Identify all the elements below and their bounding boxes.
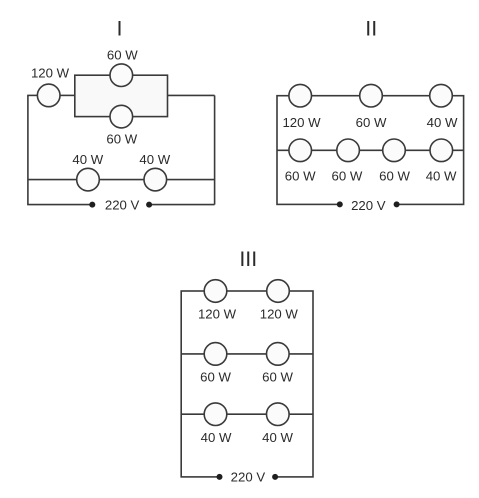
svg-text:40 W: 40 W bbox=[72, 152, 103, 167]
circuit II: second row wire bbox=[277, 149, 464, 151]
mask for 220V text gap circuit III bottom bbox=[220, 475, 276, 478]
circuit III: third row wire bbox=[181, 413, 313, 415]
terminal dot right circuit II bbox=[394, 201, 400, 207]
circuit II: outer rectangle bbox=[277, 96, 464, 205]
circuit I: middle branch wire (40W lamps) bbox=[28, 179, 215, 181]
lamp 40W circuit III left bbox=[204, 403, 227, 426]
lamp 120W circuit III left bbox=[204, 280, 227, 303]
svg-text:60 W: 60 W bbox=[379, 168, 410, 183]
circuit I: left vertical wire bbox=[27, 95, 29, 204]
lamp 40W circuit II row1 bbox=[430, 84, 453, 107]
svg-text:220 V: 220 V bbox=[231, 469, 266, 484]
mask for 220V text gap circuit II bottom bbox=[340, 203, 397, 206]
circuit I: bottom wire right segment bbox=[149, 204, 215, 206]
lamp 60W circuit II row2 c bbox=[383, 139, 406, 162]
lamp 60W circuit II row2 a bbox=[289, 139, 312, 162]
svg-text:60 W: 60 W bbox=[107, 48, 138, 63]
svg-text:120 W: 120 W bbox=[260, 306, 299, 321]
lamp 40W right circuit I bbox=[144, 168, 167, 191]
svg-text:220 V: 220 V bbox=[105, 198, 140, 213]
lamp 120W circuit II row1 bbox=[289, 84, 312, 107]
lamp 60W circuit III left bbox=[204, 343, 227, 366]
lamp 40W circuit II row2 bbox=[430, 139, 453, 162]
lamp 120W circuit I bbox=[37, 84, 60, 107]
svg-text:III: III bbox=[239, 247, 257, 271]
svg-text:120 W: 120 W bbox=[198, 306, 237, 321]
circuit III: second row wire bbox=[181, 353, 313, 355]
svg-text:II: II bbox=[365, 17, 377, 41]
parallel box of two 60W lamps bbox=[75, 75, 168, 116]
circuit I: bottom wire left segment bbox=[27, 204, 92, 206]
circuit I: right vertical wire bbox=[214, 95, 216, 204]
circuit III: outer rectangle bbox=[181, 291, 313, 477]
svg-text:60 W: 60 W bbox=[356, 115, 387, 130]
svg-text:120 W: 120 W bbox=[282, 115, 321, 130]
svg-text:40 W: 40 W bbox=[427, 115, 458, 130]
svg-text:60 W: 60 W bbox=[285, 168, 316, 183]
svg-text:I: I bbox=[117, 17, 123, 41]
lamp 60W circuit II row2 b bbox=[337, 139, 360, 162]
svg-text:60 W: 60 W bbox=[262, 370, 293, 385]
wire: lamp 120W to parallel box bbox=[60, 94, 75, 96]
svg-text:40 W: 40 W bbox=[262, 430, 293, 445]
terminal dot left circuit I bbox=[89, 202, 95, 208]
terminal dot left circuit II bbox=[337, 201, 343, 207]
lamp 60W top circuit I bbox=[110, 64, 133, 87]
svg-text:60 W: 60 W bbox=[106, 131, 137, 146]
svg-text:40 W: 40 W bbox=[139, 152, 170, 167]
svg-text:120 W: 120 W bbox=[31, 66, 70, 81]
svg-text:40 W: 40 W bbox=[426, 168, 457, 183]
svg-text:40 W: 40 W bbox=[201, 430, 232, 445]
svg-text:220 V: 220 V bbox=[351, 198, 386, 213]
lamp 60W circuit III right bbox=[267, 343, 290, 366]
lamp 120W circuit III right bbox=[267, 280, 290, 303]
lamp 60W circuit II row1 bbox=[360, 84, 383, 107]
terminal dot left circuit III bbox=[217, 474, 223, 480]
terminal dot right circuit III bbox=[272, 474, 278, 480]
wire: parallel box to right vertical bbox=[168, 94, 215, 96]
svg-text:60 W: 60 W bbox=[332, 168, 363, 183]
svg-text:60 W: 60 W bbox=[200, 370, 231, 385]
lamp 40W left circuit I bbox=[77, 168, 100, 191]
lamp 60W bottom circuit I bbox=[110, 105, 133, 128]
terminal dot right circuit I bbox=[146, 202, 152, 208]
lamp 40W circuit III right bbox=[267, 403, 290, 426]
wire: left vertical to lamp 120W bbox=[27, 94, 38, 96]
